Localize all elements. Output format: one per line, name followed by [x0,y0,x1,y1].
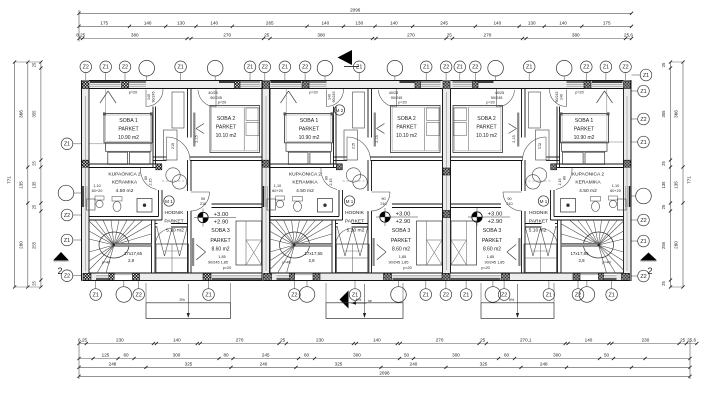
svg-text:140: 140 [585,338,593,343]
svg-text:10.90 m2: 10.90 m2 [574,135,595,141]
svg-text:M 1: M 1 [346,199,354,204]
svg-text:Z1: Z1 [526,65,532,71]
svg-text:5%: 5% [509,298,515,302]
svg-text:248: 248 [540,362,548,367]
svg-text:125: 125 [102,353,110,358]
svg-text:1,10: 1,10 [274,184,281,188]
svg-text:50: 50 [604,353,610,358]
unit 2 interior graphics [262,81,451,281]
svg-text:PARKET: PARKET [299,127,320,133]
level marker +3.00/+2.90 [380,212,390,222]
svg-text:80: 80 [563,176,567,180]
svg-text:Z2: Z2 [575,292,581,298]
svg-text:Z2: Z2 [583,65,589,71]
svg-text:Z2: Z2 [291,292,297,298]
svg-text:280: 280 [19,241,24,249]
svg-text:2,15: 2,15 [329,179,333,186]
svg-text:60+20: 60+20 [610,189,621,193]
svg-text:Z2: Z2 [83,65,89,71]
svg-text:140: 140 [144,21,152,26]
svg-text:PARKET: PARKET [164,219,183,225]
svg-text:140: 140 [390,21,398,26]
svg-text:Z1: Z1 [64,142,70,148]
grid circles left column [61,138,73,150]
unit 3 interior graphics (mirrored) [442,81,631,281]
svg-text:140: 140 [321,21,329,26]
svg-text:SOBA 3: SOBA 3 [392,228,411,234]
svg-text:230: 230 [642,338,650,343]
svg-text:10.90 m2: 10.90 m2 [299,135,320,141]
svg-text:Z1: Z1 [640,89,646,95]
svg-text:PARKET: PARKET [396,125,417,131]
svg-text:380: 380 [317,33,325,38]
svg-text:Z1: Z1 [640,239,646,245]
svg-text:270: 270 [436,338,444,343]
svg-text:Z2: Z2 [640,117,646,123]
svg-text:KERAMIKA: KERAMIKA [112,180,138,186]
svg-text:255: 255 [32,241,37,249]
section triangle left (points up) [54,252,69,260]
svg-text:325: 325 [185,362,193,367]
label M1 [344,196,354,206]
svg-text:130: 130 [177,21,185,26]
svg-text:135: 135 [674,181,679,189]
bottom dimension band [79,343,697,345]
svg-text:PARKET: PARKET [391,238,412,244]
svg-text:240: 240 [410,362,418,367]
unit 1 interior graphics [82,81,271,281]
svg-text:Z1: Z1 [93,292,99,298]
svg-text:40/25: 40/25 [208,91,218,95]
slope arrow [187,284,189,316]
svg-text:Z2: Z2 [640,274,646,280]
svg-text:90/245: 90/245 [491,96,503,100]
svg-text:Z2: Z2 [640,218,646,224]
svg-text:135: 135 [661,181,666,189]
svg-text:25: 25 [32,204,37,209]
svg-text:8.60 m2: 8.60 m2 [392,247,410,253]
svg-text:771: 771 [7,176,12,184]
svg-text:2096: 2096 [350,8,361,13]
svg-text:90: 90 [507,197,511,201]
svg-text:Z1: Z1 [177,65,183,71]
svg-text:SOBA 2: SOBA 2 [477,116,496,122]
svg-text:8.60 m2: 8.60 m2 [211,247,229,253]
svg-text:p=40: p=40 [282,261,291,265]
svg-text:210: 210 [506,202,512,206]
svg-text:10.10 m2: 10.10 m2 [216,133,237,139]
svg-text:1,85: 1,85 [487,255,494,259]
svg-text:Z1: Z1 [356,65,362,71]
svg-text:Z2: Z2 [302,65,308,71]
svg-text:PARKET: PARKET [476,125,497,131]
section marker triangle bottom [340,291,349,309]
svg-text:PARKET: PARKET [529,219,548,225]
svg-text:90/245: 90/245 [555,92,559,103]
svg-text:8,25: 8,25 [76,33,85,38]
label M2 [334,105,344,115]
svg-text:Z1: Z1 [603,65,609,71]
svg-text:210: 210 [200,202,206,206]
svg-text:PARKET: PARKET [216,125,237,131]
svg-text:p=40: p=40 [602,261,611,265]
left dimension column [14,62,16,287]
svg-text:80: 80 [144,176,148,180]
svg-text:25: 25 [32,161,37,166]
svg-text:366: 366 [674,110,679,118]
terrace box below plan [326,303,403,319]
svg-text:Z2: Z2 [443,292,449,298]
svg-text:PARKET: PARKET [574,127,595,133]
svg-text:380: 380 [572,33,580,38]
section triangle right (points up) [641,253,657,261]
svg-text:140: 140 [373,338,381,343]
svg-text:248: 248 [109,362,117,367]
svg-text:Z2: Z2 [262,65,268,71]
grid circles right column [638,85,650,97]
svg-text:10.90 m2: 10.90 m2 [118,135,139,141]
svg-text:SOBA 2: SOBA 2 [217,116,236,122]
svg-text:HODNIK: HODNIK [345,210,365,216]
svg-text:140: 140 [493,21,501,26]
svg-text:Z1: Z1 [205,292,211,298]
svg-text:Z1: Z1 [643,73,649,79]
svg-text:SOBA 1: SOBA 1 [575,118,594,124]
svg-text:8.60 m2: 8.60 m2 [483,247,501,253]
svg-text:KERAMIKA: KERAMIKA [292,180,318,186]
svg-text:5.10 m2: 5.10 m2 [347,228,365,234]
svg-text:Z1: Z1 [103,65,109,71]
svg-text:90/245 1,85: 90/245 1,85 [484,261,504,265]
svg-text:p=20: p=20 [223,266,232,270]
svg-text:6,25: 6,25 [78,338,87,343]
svg-text:SOBA 1: SOBA 1 [119,118,138,124]
svg-text:140: 140 [328,94,332,100]
svg-text:25: 25 [480,338,486,343]
svg-text:2096: 2096 [379,371,390,376]
svg-text:270: 270 [484,33,492,38]
svg-text:Z1: Z1 [247,65,253,71]
svg-text:p=20: p=20 [481,266,490,270]
svg-text:2,8: 2,8 [128,258,135,263]
svg-text:Z2: Z2 [622,65,628,71]
svg-text:Z1: Z1 [423,292,429,298]
extra Z1 circle right of top row [640,69,652,81]
svg-text:40/25: 40/25 [495,91,505,95]
svg-text:5%: 5% [180,298,186,302]
svg-text:Z2: Z2 [472,65,478,71]
svg-text:KUPAONICA 2: KUPAONICA 2 [572,172,605,178]
svg-text:90: 90 [201,197,205,201]
svg-text:M 1: M 1 [165,199,173,204]
svg-text:230: 230 [116,338,124,343]
svg-text:5.10 m2: 5.10 m2 [529,228,547,234]
svg-text:135: 135 [32,181,37,189]
svg-text:25: 25 [32,62,37,67]
svg-text:140: 140 [560,94,564,100]
svg-text:+2.90: +2.90 [214,219,229,225]
svg-text:90/245: 90/245 [152,92,156,103]
svg-text:280: 280 [674,241,679,249]
svg-text:+2.90: +2.90 [488,219,503,225]
svg-text:p=20: p=20 [309,91,318,95]
svg-text:25,6: 25,6 [687,338,696,343]
svg-text:25: 25 [32,281,37,286]
svg-text:SOBA 3: SOBA 3 [483,228,502,234]
svg-text:Z1: Z1 [546,292,552,298]
svg-text:25: 25 [280,338,286,343]
svg-text:25: 25 [680,338,686,343]
svg-text:+3.00: +3.00 [488,212,503,218]
svg-text:2,15: 2,15 [512,135,516,142]
svg-text:300: 300 [452,353,460,358]
svg-text:4.50 m2: 4.50 m2 [116,188,134,194]
svg-text:25: 25 [661,62,666,67]
svg-text:270: 270 [236,338,244,343]
svg-text:60+20: 60+20 [272,189,283,193]
Z1 long leader into plan (left) [82,143,153,145]
svg-text:90: 90 [381,197,385,201]
right dimension column [670,62,672,287]
svg-text:Z2: Z2 [64,274,70,280]
svg-text:60: 60 [504,353,510,358]
svg-text:25,6: 25,6 [624,33,633,38]
svg-text:355: 355 [661,110,666,118]
svg-text:270: 270 [407,33,415,38]
svg-text:17x17,65: 17x17,65 [570,251,589,256]
svg-text:240: 240 [260,362,268,367]
section marker triangle top [338,50,353,65]
svg-text:90/245: 90/245 [391,96,403,100]
svg-text:M 1: M 1 [540,199,548,204]
svg-text:175: 175 [603,21,611,26]
svg-text:230: 230 [316,338,324,343]
svg-text:2,15: 2,15 [558,179,562,186]
svg-text:1,85: 1,85 [399,255,406,259]
svg-text:210: 210 [380,202,386,206]
svg-text:60: 60 [304,353,310,358]
svg-text:25: 25 [447,33,453,38]
svg-text:HODNIK: HODNIK [529,210,549,216]
svg-text:245: 245 [262,353,270,358]
svg-text:p=20: p=20 [398,101,407,105]
slope arrow [517,284,519,316]
svg-text:Z1: Z1 [282,65,288,71]
top dimension band [79,12,632,14]
svg-text:140: 140 [173,338,181,343]
svg-text:Z1: Z1 [423,65,429,71]
svg-text:Z2: Z2 [64,213,70,219]
svg-text:265: 265 [266,21,274,26]
grid circles top row [80,61,92,73]
svg-text:KUPAONICA 2: KUPAONICA 2 [289,172,322,178]
svg-text:2: 2 [57,266,62,276]
svg-text:se: se [368,299,372,303]
svg-text:HODNIK: HODNIK [164,210,184,216]
building outer walls [82,81,632,89]
svg-text:5%: 5% [356,298,362,302]
svg-text:1,85: 1,85 [218,255,225,259]
svg-text:2: 2 [647,266,652,276]
label M1 [538,196,548,206]
svg-text:80: 80 [223,353,229,358]
svg-text:Z2: Z2 [443,65,449,71]
svg-text:p=20: p=20 [218,101,227,105]
svg-text:2,8: 2,8 [578,258,585,263]
svg-text:M 2: M 2 [336,108,344,113]
svg-text:325: 325 [335,362,343,367]
svg-text:270,1: 270,1 [520,338,532,343]
svg-text:300: 300 [353,353,361,358]
terrace box below plan [481,303,554,319]
svg-text:135: 135 [19,181,24,189]
svg-text:90/245: 90/245 [332,92,336,103]
svg-text:Z2: Z2 [501,292,507,298]
svg-text:p=20: p=20 [486,101,495,105]
svg-text:140: 140 [559,21,567,26]
svg-text:Z1: Z1 [64,238,70,244]
svg-text:130: 130 [528,21,536,26]
svg-text:p=20: p=20 [403,266,412,270]
svg-text:325: 325 [480,362,488,367]
svg-text:80: 80 [325,176,329,180]
svg-text:140: 140 [210,21,218,26]
svg-text:2,15: 2,15 [195,135,199,142]
svg-text:25: 25 [661,161,666,166]
svg-text:Z2: Z2 [122,65,128,71]
svg-text:40/25: 40/25 [389,91,399,95]
level marker +3.00/+2.90 [472,212,482,222]
svg-text:17x17,65: 17x17,65 [304,251,323,256]
svg-text:KUPAONICA 2: KUPAONICA 2 [108,172,141,178]
svg-text:366: 366 [19,110,24,118]
svg-text:4.50 m2: 4.50 m2 [296,188,314,194]
svg-text:25: 25 [264,33,270,38]
slope arrow [364,284,366,316]
svg-text:130: 130 [355,21,363,26]
svg-text:10.10 m2: 10.10 m2 [396,133,417,139]
terrace box below plan [146,303,231,319]
svg-text:140: 140 [147,94,151,100]
svg-text:175: 175 [100,21,108,26]
svg-text:p=40: p=40 [102,261,111,265]
svg-text:SOBA 3: SOBA 3 [211,228,230,234]
Z1 long leader into plan (right) [561,141,632,143]
svg-text:60: 60 [123,353,129,358]
svg-text:1,10: 1,10 [93,184,100,188]
svg-text:PARKET: PARKET [118,127,139,133]
svg-text:PARKET: PARKET [345,219,364,225]
svg-text:Z1: Z1 [640,140,646,146]
svg-text:4.50 m2: 4.50 m2 [579,188,597,194]
svg-text:25: 25 [661,281,666,286]
svg-text:p=20: p=20 [129,91,138,95]
svg-text:50: 50 [404,353,410,358]
svg-text:5.10 m2: 5.10 m2 [166,228,184,234]
svg-text:PARKET: PARKET [210,238,231,244]
svg-text:270: 270 [223,33,231,38]
svg-text:SOBA 1: SOBA 1 [300,118,319,124]
label M1 [164,196,174,206]
svg-text:SOBA 2: SOBA 2 [397,116,416,122]
svg-text:17x17,65: 17x17,65 [124,251,143,256]
svg-text:380: 380 [131,33,139,38]
grid circles bottom row [90,289,102,301]
svg-text:+3.00: +3.00 [396,212,411,218]
svg-text:Z1: Z1 [457,65,463,71]
svg-text:PARKET: PARKET [482,238,503,244]
svg-text:90/245 1,85: 90/245 1,85 [388,261,408,265]
svg-text:90/245: 90/245 [210,96,222,100]
svg-text:2,8: 2,8 [308,258,315,263]
svg-text:2,15: 2,15 [149,179,153,186]
svg-text:+2.90: +2.90 [396,219,411,225]
svg-text:355: 355 [32,110,37,118]
svg-text:KERAMIKA: KERAMIKA [575,180,601,186]
svg-text:60+20: 60+20 [92,189,103,193]
svg-text:255: 255 [661,241,666,249]
svg-text:25: 25 [661,204,666,209]
svg-text:2,15: 2,15 [375,135,379,142]
svg-text:90/245 1,85: 90/245 1,85 [208,261,228,265]
svg-text:Z2: Z2 [136,292,142,298]
level marker +3.00/+2.90 [198,212,208,222]
svg-text:+3.00: +3.00 [214,212,229,218]
svg-text:1,10: 1,10 [612,184,619,188]
svg-text:p=20: p=20 [575,91,584,95]
svg-text:300: 300 [173,353,181,358]
svg-text:Z1: Z1 [463,292,469,298]
svg-text:Z1: Z1 [608,292,614,298]
svg-text:300: 300 [553,353,561,358]
svg-text:10.10 m2: 10.10 m2 [476,133,497,139]
svg-text:771: 771 [687,176,692,184]
svg-text:245: 245 [440,21,448,26]
